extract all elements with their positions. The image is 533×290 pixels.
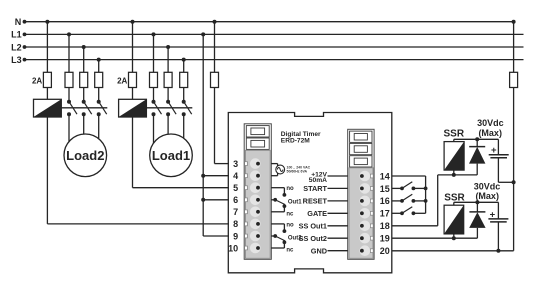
terminal pin 19 hole [360, 236, 364, 240]
contactor coil K1 [34, 99, 62, 117]
svg-text:8: 8 [233, 219, 238, 229]
svg-text:16: 16 [380, 196, 390, 206]
diode D1 [469, 139, 485, 175]
terminal pin 9 hole [256, 234, 260, 238]
svg-text:10: 10 [228, 243, 238, 253]
junction capacitor C2 negative on GND rail [496, 249, 500, 253]
svg-text:L1: L1 [11, 30, 22, 40]
svg-text:2A: 2A [117, 77, 127, 86]
pin number 19 [380, 234, 390, 244]
svg-text:18: 18 [380, 221, 390, 231]
svg-text:SS Out1: SS Out1 [299, 222, 327, 231]
junction diode D1 anode rail [475, 137, 479, 141]
fuse FK2b [150, 72, 158, 87]
svg-text:nc: nc [286, 211, 294, 217]
junction terminal 4 tap [201, 174, 229, 178]
timer unit ERD-72M outline [228, 113, 391, 273]
label SS Out2 pin 19 [299, 234, 348, 243]
terminal pin 3 hole [256, 162, 260, 166]
wire N drop right side [512, 20, 516, 73]
terminal pin 7 hole [256, 210, 260, 214]
fuse F4 right [510, 72, 518, 87]
wire L1 drop to K1 contact 1 [67, 32, 71, 72]
terminal pin 18 hole [360, 224, 364, 228]
wire L2 drop to K2 contact 2 [166, 45, 170, 72]
junction bus at pin 15 [424, 187, 428, 191]
wire L1 drop to K2 contact 1 [152, 32, 156, 72]
svg-text:3: 3 [233, 159, 238, 169]
node N label [15, 17, 22, 27]
svg-text:30Vdc: 30Vdc [477, 118, 504, 128]
label supply rating [287, 165, 311, 173]
wire L2 drop to K1 contact 2 [82, 45, 86, 72]
svg-text:5: 5 [233, 183, 238, 193]
wire fuse to K2 coil [132, 88, 134, 100]
junction terminal 6 tap [201, 198, 229, 202]
fuse FK1a 2A [43, 72, 51, 87]
wire fuse to K1 coil [46, 88, 48, 100]
label 2A for FK1a [32, 77, 42, 86]
pin number 3 [233, 159, 238, 169]
relay contact Out2 common [271, 234, 302, 241]
pin number 9 [233, 231, 238, 241]
wire K2 linkage [146, 107, 192, 109]
wire SS Out1 pin 18 to SSR1 [392, 175, 477, 226]
svg-text:START: START [303, 184, 327, 193]
fuse FK2d [180, 72, 188, 87]
relay contact Out2 nc [271, 240, 294, 253]
wire fuse down to GND rail [513, 88, 515, 251]
fuse FK2c [164, 72, 172, 87]
terminal strip right connector [348, 129, 374, 259]
svg-text:N: N [15, 17, 22, 27]
pin number 18 [380, 221, 390, 231]
wire K2 coil feed from N [131, 20, 135, 73]
svg-text:SSR: SSR [444, 129, 465, 140]
pin number 5 [233, 183, 238, 193]
svg-text:Load1: Load1 [152, 148, 190, 163]
pin number 14 [380, 171, 390, 181]
capacitor C1 30Vdc [489, 139, 509, 182]
contact K1-3 [97, 88, 107, 151]
fuse FK2a 2A [129, 72, 137, 87]
fuse FK1d [95, 72, 103, 87]
terminal pin 17 hole [360, 211, 364, 215]
svg-text:15: 15 [380, 184, 390, 194]
svg-text:Load2: Load2 [66, 148, 104, 163]
contact K2-3 [182, 88, 192, 151]
contact K2-1 [152, 88, 162, 151]
svg-text:6: 6 [233, 195, 238, 205]
svg-text:ERD-72M: ERD-72M [281, 138, 310, 145]
wire SSR2 stub [453, 234, 455, 238]
svg-text:no: no [286, 222, 294, 228]
pin number 17 [380, 209, 390, 219]
pin number 6 [233, 195, 238, 205]
switch SRESET [392, 194, 426, 203]
power input symbol 100-240VAC [271, 164, 284, 176]
solid state relay SSR1 [444, 142, 464, 171]
svg-text:20: 20 [380, 246, 390, 256]
svg-text:50mA: 50mA [309, 177, 327, 184]
svg-text:Out1: Out1 [288, 199, 302, 205]
svg-text:L2: L2 [11, 42, 22, 52]
svg-text:17: 17 [380, 209, 390, 219]
wire K2 coil to terminal [133, 117, 229, 188]
label 2A for FK2a [117, 77, 127, 86]
node L3 label [11, 55, 22, 65]
switch SSTART [392, 182, 426, 191]
contact K1-2 [82, 88, 92, 151]
wire GND pin 20 rail [392, 250, 514, 252]
svg-text:7: 7 [233, 207, 238, 217]
junction SSR2 negative [452, 236, 456, 240]
terminal pin 16 hole [360, 199, 364, 203]
wire L1 drop to terminals 4 6 9 [201, 32, 229, 236]
svg-text:GND: GND [311, 247, 327, 256]
contact K1-1 [67, 88, 77, 151]
label SSR2 [444, 192, 465, 203]
label Digital Timer ERD-72M [281, 131, 321, 145]
wire N drop to timer terminal 3 [213, 20, 217, 73]
label 30Vdc Max lower [474, 181, 501, 201]
pin number 15 [380, 184, 390, 194]
svg-text:14: 14 [380, 171, 390, 181]
solid state relay SSR2 [444, 205, 464, 234]
wire K1 coil to terminal [47, 117, 229, 224]
label START pin 15 [303, 184, 347, 193]
wire SSR2 positive rail [454, 202, 499, 205]
capacitor C2 30Vdc [488, 202, 508, 251]
node L1 label [11, 30, 22, 40]
svg-text:4: 4 [233, 171, 238, 181]
svg-text:50/60Hz 6VA: 50/60Hz 6VA [287, 169, 308, 173]
wire L3 drop to K1 contact 3 [97, 58, 101, 73]
contact K2-2 [166, 88, 176, 151]
svg-text:no: no [286, 186, 294, 192]
terminal pin 8 hole [256, 222, 260, 226]
terminal pin 6 hole [256, 198, 260, 202]
wire N bus [23, 20, 514, 24]
junction bus at pin 16 [424, 199, 428, 203]
wire L2 bus [23, 45, 524, 49]
svg-text:19: 19 [380, 234, 390, 244]
junction SSR1 negative [452, 173, 456, 177]
relay contact Out1 nc [271, 204, 294, 217]
svg-text:2A: 2A [32, 77, 42, 86]
relay contact Out1 no [271, 186, 294, 197]
wire SS Out2 pin 19 to SSR2 [392, 237, 478, 239]
svg-text:30Vdc: 30Vdc [474, 181, 501, 191]
wire K1 coil feed from N [45, 20, 49, 73]
fuse F3 timer supply [211, 72, 219, 87]
load M2 Load1 [150, 134, 193, 177]
fuse FK1b [65, 72, 73, 87]
terminal pin 5 hole [256, 186, 260, 190]
svg-text:L3: L3 [11, 55, 22, 65]
wire SSR1 positive rail [454, 139, 499, 141]
load M1 Load2 [64, 134, 107, 177]
switch SGATE [392, 207, 426, 216]
terminal pin 10 hole [256, 246, 260, 250]
terminal pin 20 hole [360, 249, 364, 253]
pin number 20 [380, 246, 390, 256]
contactor coil K2 [119, 99, 147, 117]
terminal pin 15 hole [360, 187, 364, 191]
svg-text:9: 9 [233, 231, 238, 241]
wire L3 drop to K2 contact 3 [182, 58, 186, 73]
terminal strip left connector [244, 124, 271, 259]
fuse FK1c [80, 72, 88, 87]
svg-text:(Max): (Max) [478, 128, 502, 138]
wire L1 bus [23, 33, 524, 37]
pin number 7 [233, 207, 238, 217]
pin number 8 [233, 219, 238, 229]
wire C1 negative to N drop [498, 181, 513, 183]
wire K1 linkage [61, 107, 107, 109]
svg-text:nc: nc [286, 248, 294, 254]
svg-text:RESET: RESET [303, 197, 328, 206]
label SSR1 [444, 129, 465, 140]
label +12V 50mA pin 14 [309, 171, 348, 183]
node L2 label [11, 42, 22, 52]
junction diode D2 anode rail [475, 200, 479, 204]
terminal pin 14 hole [360, 174, 364, 178]
junction C1 negative on N drop [512, 180, 516, 184]
terminal pin 4 hole [256, 174, 260, 178]
pin number 16 [380, 196, 390, 206]
pin number 10 [228, 243, 238, 253]
label GATE pin 17 [307, 209, 347, 218]
wire fuse to terminal 3 [215, 88, 229, 164]
relay contact Out2 no [271, 222, 294, 233]
svg-text:GATE: GATE [307, 209, 327, 218]
wire +12V from pin 14 to switch bus [392, 176, 426, 213]
svg-text:SS Out2: SS Out2 [299, 234, 327, 243]
pin number 4 [233, 171, 238, 181]
wire L3 bus [23, 58, 524, 62]
label RESET pin 16 [303, 197, 348, 206]
relay contact Out1 common [271, 198, 302, 205]
wire SSR1 stub [453, 170, 455, 175]
label 30Vdc Max upper [477, 118, 504, 138]
diode D2 [469, 202, 485, 238]
label GND pin 20 [311, 247, 348, 256]
svg-text:(Max): (Max) [475, 191, 499, 201]
label SS Out1 pin 18 [299, 222, 348, 231]
